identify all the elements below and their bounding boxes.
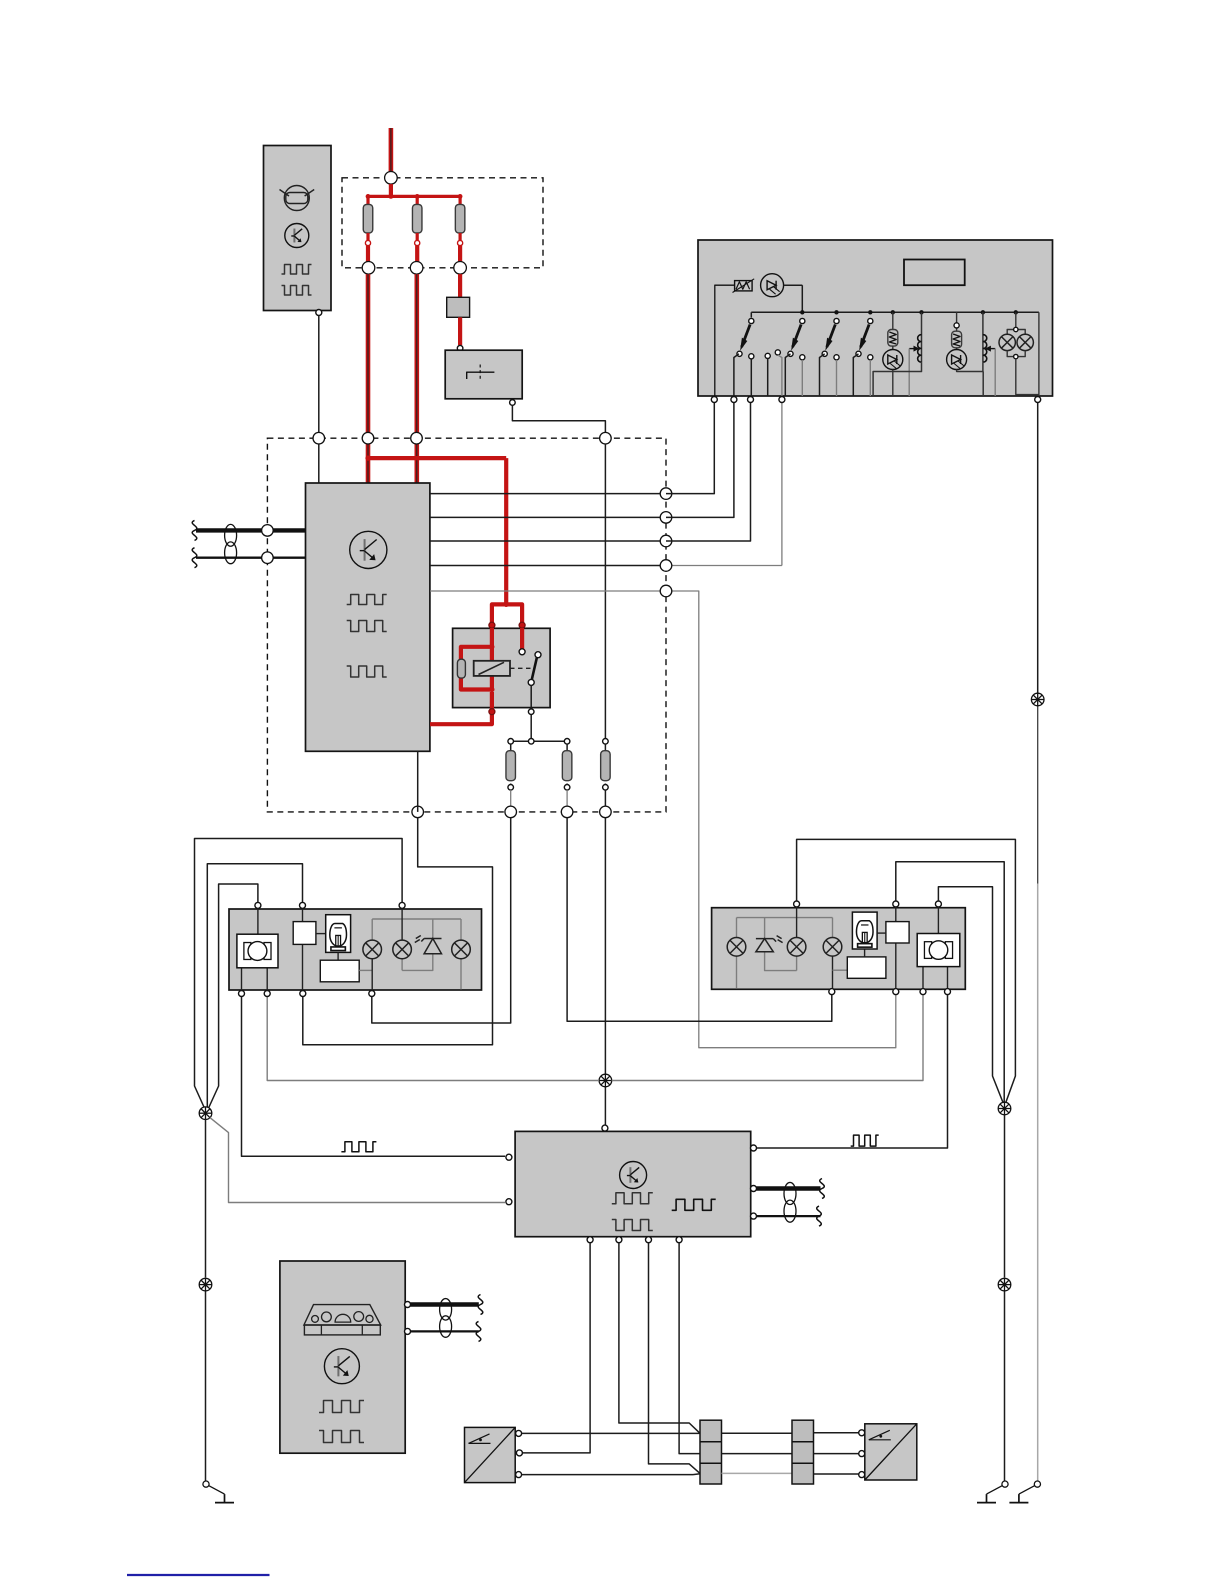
fuse box (dashed) <box>342 178 543 268</box>
interface box pin top <box>457 345 463 351</box>
wire F3 to box edge (red) <box>458 246 462 262</box>
wire F4 down <box>604 790 606 812</box>
harness node r3 <box>660 535 672 547</box>
ground G1 <box>203 1481 234 1503</box>
wire r1 up to switch box <box>666 403 714 494</box>
relay switch feed (red) <box>520 628 524 649</box>
splice S3 <box>599 1074 612 1087</box>
harness node t2 <box>362 432 374 444</box>
right high beam lamp <box>787 907 806 971</box>
harness node r4 <box>660 560 672 572</box>
relay contact 30 <box>519 649 525 655</box>
right leveling motor <box>917 907 960 989</box>
wire F2 feed to control unit (red) <box>414 274 419 483</box>
harness node t3 <box>411 432 423 444</box>
right lamp gray bus <box>737 917 833 919</box>
relay pin bottom <box>489 709 495 715</box>
module left pin 1 <box>506 1154 512 1160</box>
wire tr far right (gray) <box>1037 884 1039 1481</box>
left lamp bottom pin 3 <box>300 991 306 997</box>
module left pin 2 <box>506 1199 512 1205</box>
wire module pin1 to left sensor <box>522 1243 590 1453</box>
harness node r2 <box>660 512 672 524</box>
wire r2 up to switch box <box>666 403 734 517</box>
relay coil dashed link <box>510 667 532 669</box>
cu output wire 1 <box>430 493 666 495</box>
switch unit display <box>904 260 965 286</box>
relay pin 87a <box>528 709 534 715</box>
battery feed wire (red) <box>389 128 394 172</box>
squiggle module pair 2 <box>817 1206 822 1226</box>
transistor icon in A1 <box>285 224 309 248</box>
switch box pin 2 <box>731 397 737 403</box>
right low beam lamp <box>823 918 842 989</box>
right headlamp cluster body <box>712 908 966 990</box>
cu output wire 4 <box>430 565 782 567</box>
wire tr far right (dark) <box>1037 403 1039 884</box>
wire F6 to right lamp pin1 <box>567 818 832 1022</box>
harness node b3 <box>561 806 573 818</box>
relay resistor <box>457 659 465 678</box>
coil branch 2 <box>983 312 995 396</box>
module top pin <box>602 1125 608 1131</box>
connector block X2 <box>792 1420 814 1484</box>
fuse F4 <box>601 744 611 790</box>
left lamp top pin c <box>399 902 405 908</box>
dashboard icon <box>304 1305 381 1335</box>
squiggle cluster pair 2 <box>476 1321 481 1341</box>
headlamp control unit body <box>306 483 430 751</box>
switch feed wiring <box>715 285 1039 396</box>
cu output wire 3 <box>430 540 666 542</box>
right position lamp <box>727 918 746 988</box>
gray branch S1 to module <box>210 1118 505 1203</box>
left sensor pin 2 <box>516 1450 522 1456</box>
wire left sensor pin3 <box>522 1473 700 1476</box>
fuse bus <box>511 740 567 742</box>
relay pin 86 <box>489 622 495 628</box>
pulse waveform icon 1 in A1 <box>282 265 312 275</box>
transistor icon in cluster <box>324 1349 359 1384</box>
relay coil feed (red) <box>461 628 495 692</box>
harness node l1 <box>262 525 274 537</box>
fuse F6 <box>562 744 572 790</box>
relay contact 87 <box>535 652 541 658</box>
transistor icon in control unit <box>350 531 387 568</box>
module right pin 2 <box>751 1186 757 1192</box>
ground G2 <box>977 1481 1008 1503</box>
ground G3 <box>1009 1481 1040 1503</box>
waveform icon ic2 <box>319 1431 364 1443</box>
switch SW1 <box>734 318 754 396</box>
wire r4 up to switch box (gray) <box>781 403 783 566</box>
left headlamp cluster body <box>229 909 482 990</box>
wire module pin4 to connector <box>679 1243 700 1454</box>
squiggle cu pair 2 <box>192 548 197 568</box>
leveling control module body <box>515 1131 751 1236</box>
fuse F4 node <box>603 739 609 745</box>
squiggle module pair 1 <box>820 1179 825 1199</box>
waveform symbol left <box>341 1142 376 1152</box>
interface box pin bottom <box>510 400 516 406</box>
red branch to relay <box>368 458 522 625</box>
wire F1 feed to control unit (red) <box>365 274 370 483</box>
left xenon bulb <box>326 915 351 953</box>
fuse F2 <box>412 196 422 245</box>
left indicator diode <box>402 919 441 970</box>
control module A1 (top left) body <box>264 146 332 311</box>
harness node l2 <box>262 552 274 564</box>
module bottom pin 4 <box>676 1237 682 1243</box>
switch SW1 aux contacts <box>765 350 782 396</box>
module bottom pin 2 <box>616 1237 622 1243</box>
headlamp relay body <box>453 628 550 707</box>
cluster twisted pair <box>411 1299 479 1338</box>
right lamp top pin c <box>935 901 941 907</box>
harness node b1 <box>412 806 424 818</box>
panel lamps <box>999 312 1039 396</box>
fuse bus node 1 <box>508 739 514 745</box>
wire cu bottom to left lamp pin3 <box>303 751 493 1045</box>
switch box pin 5 <box>1035 397 1041 403</box>
pulse waveform icon 2 in A1 <box>282 286 312 296</box>
right lamp bottom pin 3 <box>920 989 926 995</box>
harness node b2 <box>505 806 517 818</box>
left lamp top pin a <box>255 902 261 908</box>
wire X1-X2 row2 <box>722 1453 793 1455</box>
splice S5 <box>998 1278 1011 1291</box>
fuse F1 <box>363 196 373 245</box>
splice S6 <box>1031 693 1044 706</box>
rheostat branch 2 <box>947 312 984 371</box>
right sensor pin 3 <box>859 1472 865 1478</box>
wire interface to junction <box>512 405 605 438</box>
wire left sensor pin1 <box>522 1432 700 1434</box>
left lamp module square <box>293 908 326 990</box>
wire F5 down <box>510 790 512 812</box>
fuse bus node 2 <box>528 739 534 745</box>
waveform icon m1 <box>612 1193 653 1204</box>
left lamp gray bus <box>372 918 461 920</box>
cluster pin 1 <box>405 1302 411 1308</box>
wire module pin3 to connector <box>649 1243 701 1474</box>
wire X2 to right sensor row3 <box>814 1473 859 1475</box>
left lamp bottom pin 2 <box>264 991 270 997</box>
splice S1 <box>199 1107 212 1120</box>
right sensor pin 1 <box>859 1430 865 1436</box>
wire F4 to module <box>604 818 606 1126</box>
module right pin 3 <box>751 1213 757 1219</box>
relay coil <box>474 661 510 676</box>
right lamp bottom pin 4 <box>945 989 951 995</box>
switch box pin 4 <box>779 397 785 403</box>
relay output wire <box>530 685 532 738</box>
waveform icon cu3 <box>347 666 387 677</box>
fuse box connector 2 <box>410 262 423 275</box>
left low beam lamp <box>363 919 382 991</box>
coil branch 1 <box>873 312 921 396</box>
switch SW2 <box>785 318 805 396</box>
module bottom pin 1 <box>587 1237 593 1243</box>
wire F5 to left lamp pin4 <box>372 818 511 1023</box>
fuse box connector 3 <box>454 262 467 275</box>
fuse F5 <box>506 744 516 790</box>
module twisted pair <box>757 1182 821 1222</box>
wire S4 to ground <box>1004 1115 1006 1481</box>
right lamp bottom pin 1 <box>829 989 835 995</box>
harness node b4 <box>600 806 612 818</box>
connector block X1 <box>700 1420 722 1484</box>
cu output wire 5 (gray) <box>430 591 896 1048</box>
relay pin 85 <box>519 622 525 628</box>
wire left lamp pin1 to module <box>242 997 506 1157</box>
wire F3 to inline connector (red) <box>458 274 462 297</box>
waveform symbol right <box>851 1135 879 1146</box>
wire junction to fuse F4 bus <box>604 444 606 739</box>
wire X1-X2 row3 (gray) <box>722 1472 793 1474</box>
wire module right pin1 to right lamp <box>754 995 948 1148</box>
relay switch blade <box>532 657 537 679</box>
left high beam lamp <box>393 908 412 970</box>
left headlamp ground wires <box>195 839 403 1108</box>
right lamp top pin a <box>794 901 800 907</box>
right level sensor body <box>865 1424 917 1480</box>
wire S1 to ground <box>205 1120 207 1481</box>
wire connector to interface box (red) <box>458 317 462 345</box>
wire X1-X2 row1 <box>722 1432 793 1434</box>
rheostat branch <box>883 312 903 396</box>
lamp-monitor icon in A1 <box>280 186 315 211</box>
squiggle cu pair 1 <box>192 520 197 540</box>
switch SW4 <box>853 318 873 396</box>
illumination resistor <box>733 279 755 293</box>
waveform icon cu2 <box>347 621 387 632</box>
switch SW3 <box>820 318 840 396</box>
transistor icon in module <box>620 1162 647 1189</box>
feed connector node <box>385 172 398 185</box>
switch box pin 3 <box>748 397 754 403</box>
left lamp top pin b <box>300 902 306 908</box>
right xenon bulb <box>852 912 877 949</box>
harness node t1 <box>313 432 325 444</box>
left sensor pin 3 <box>516 1472 522 1478</box>
right lamp module square <box>877 907 909 989</box>
wire F1 to box edge (red) <box>366 246 370 262</box>
left lamp bottom pin 1 <box>239 991 245 997</box>
wire A1 to harness <box>318 316 320 484</box>
wire F6 down <box>566 790 568 812</box>
switch box pin 1 <box>711 397 717 403</box>
left lamp bottom pin 4 <box>369 991 375 997</box>
cluster pin 2 <box>405 1328 411 1334</box>
waveform icon cu1 <box>347 595 387 605</box>
central harness boundary (dashed box) <box>267 438 666 812</box>
fuse bus node 3 <box>564 739 570 745</box>
module bottom pin 3 <box>646 1237 652 1243</box>
left position lamp <box>452 919 471 990</box>
fuse F3 <box>455 196 465 245</box>
splice S4 <box>998 1102 1011 1115</box>
diagnostic interface box <box>445 350 522 399</box>
harness node r5 <box>660 585 672 597</box>
right sensor pin 2 <box>859 1451 865 1457</box>
right lamp top pin b <box>893 901 899 907</box>
relay blade pivot <box>528 679 534 685</box>
fuse box connector 1 <box>362 262 375 275</box>
left level sensor body <box>465 1427 516 1482</box>
wire r3 up to switch box <box>666 403 751 541</box>
module right pin 1 <box>751 1145 757 1151</box>
wire F2 to box edge (red) <box>415 246 419 262</box>
left sensor pin 1 <box>516 1430 522 1436</box>
harness node r1 <box>660 488 672 500</box>
inline connector (small square) <box>447 297 470 317</box>
right ballast <box>833 949 886 978</box>
A1 bottom pin <box>316 310 322 316</box>
waveform icon m2 <box>612 1220 653 1231</box>
light switch unit body <box>698 240 1053 396</box>
left ballast <box>320 952 372 981</box>
instrument cluster body <box>280 1261 405 1453</box>
waveform icon ic1 <box>319 1401 364 1413</box>
harness node t4 <box>600 432 612 444</box>
splice S2 <box>199 1278 212 1291</box>
right indicator diode <box>756 918 797 971</box>
gray crossbar lamp-to-lamp <box>267 995 923 1081</box>
left leveling motor <box>237 908 278 990</box>
wire module pin2 to connector <box>619 1243 700 1434</box>
red supply bus <box>366 184 463 199</box>
cu output wire 2 <box>430 516 666 518</box>
waveform icon m3 (black) <box>672 1199 716 1210</box>
illumination led <box>761 274 784 297</box>
wire X2 to right sensor row1 <box>814 1432 859 1434</box>
footer link line <box>127 1574 270 1576</box>
squiggle cluster pair 1 <box>478 1295 483 1315</box>
relay coil return (red) <box>430 692 492 724</box>
twisted pair to control unit <box>196 524 306 563</box>
right lamp ground wires <box>797 839 1016 1102</box>
wire X2 to right sensor row2 <box>814 1453 859 1455</box>
right lamp bottom pin 2 <box>893 989 899 995</box>
